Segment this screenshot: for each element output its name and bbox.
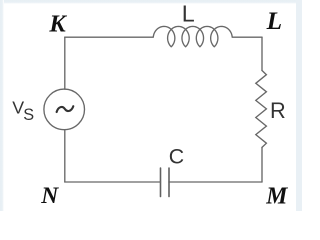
wire right vertical (resistor bottom to M) [261, 147, 263, 182]
capacitor C right plate [168, 168, 170, 197]
wire bottom right (M to capacitor right plate) [169, 181, 262, 183]
wire right vertical (L to resistor top) [261, 37, 263, 70]
left blue border band [0, 0, 4, 211]
resistor R zigzag [256, 71, 267, 148]
svg-text:K: K [48, 10, 67, 37]
AC source sine symbol [57, 106, 74, 112]
svg-text:C: C [169, 144, 184, 168]
svg-text:R: R [270, 98, 286, 123]
svg-text:S: S [23, 106, 34, 124]
top blue border band [0, 0, 302, 4]
svg-text:M: M [265, 184, 288, 210]
svg-text:N: N [40, 183, 59, 209]
wire top with inductor L coil [65, 26, 262, 46]
right blue border band [296, 0, 302, 211]
svg-text:L: L [182, 1, 195, 27]
wire left vertical (source bottom to N) [64, 130, 66, 182]
wire left vertical (K to source top) [64, 37, 66, 89]
wire bottom left (capacitor left plate to N) [65, 181, 161, 183]
capacitor C left plate [160, 168, 162, 197]
AC source VS circle [44, 89, 85, 130]
svg-text:L: L [266, 7, 282, 35]
